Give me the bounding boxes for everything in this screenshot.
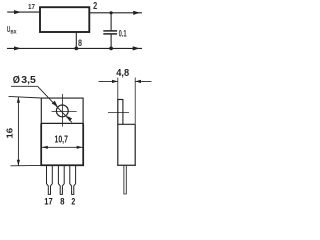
package front view body outline (thicker) xyxy=(41,123,83,165)
pin 3 outline (front view) xyxy=(70,166,76,195)
arrowhead output xyxy=(133,11,140,15)
svg-text:3,5: 3,5 xyxy=(21,75,36,86)
wire output xyxy=(89,12,142,14)
junction node cap/rail xyxy=(109,47,113,51)
svg-text:17: 17 xyxy=(28,2,35,11)
svg-text:2: 2 xyxy=(71,197,75,208)
wire capacitor bottom lead xyxy=(110,34,112,49)
junction node top xyxy=(110,11,113,14)
svg-text:16: 16 xyxy=(5,128,15,139)
capacitor C1 plate top xyxy=(103,30,117,32)
dim 10,7 arrow right xyxy=(77,146,83,149)
leader arrowhead lower-right xyxy=(67,116,72,121)
dim 4,8 left segment xyxy=(99,80,118,82)
leader line to hole xyxy=(38,86,72,122)
wire pin 8 to bottom rail xyxy=(75,32,77,48)
capacitor C1 plate bottom xyxy=(103,33,117,35)
regulator box DA1 xyxy=(40,7,89,32)
dim 16 arrow down xyxy=(17,160,20,166)
package front view tab outline (thinner) xyxy=(41,98,83,123)
dim 10,7 arrow left xyxy=(42,146,48,149)
dim 4,8 right segment xyxy=(135,80,151,82)
side view bottom edge xyxy=(117,164,136,166)
svg-text:4,8: 4,8 xyxy=(116,67,129,79)
svg-text:8: 8 xyxy=(78,38,82,48)
svg-text:вх: вх xyxy=(10,28,17,35)
dim 16 extension top xyxy=(9,96,42,98)
mounting hole xyxy=(56,105,68,117)
junction node pin8/rail xyxy=(74,47,78,51)
side view pin outline xyxy=(124,165,126,194)
pin 2 outline (front view) xyxy=(58,166,64,195)
svg-text:2: 2 xyxy=(93,1,97,12)
side view left edge xyxy=(117,99,119,165)
wire input (top rail into regulator) xyxy=(7,11,40,13)
svg-text:17: 17 xyxy=(44,197,52,208)
side view tab top edge xyxy=(117,99,123,101)
wire capacitor top lead xyxy=(110,13,112,31)
wire bottom rail xyxy=(7,47,142,49)
dim 16 arrow up xyxy=(17,97,20,103)
side view right edge xyxy=(134,124,136,165)
side view hole centerline xyxy=(108,112,129,114)
svg-text:Ø: Ø xyxy=(13,75,20,86)
arrowhead on input wire xyxy=(14,10,21,14)
hole centerline vertical xyxy=(62,94,64,127)
leader underline xyxy=(11,85,38,87)
arrowhead bottom-left xyxy=(14,46,21,50)
dim 10,7 line xyxy=(42,146,83,148)
side view right extension xyxy=(134,78,136,125)
leader arrowhead upper-left xyxy=(52,101,58,107)
hole centerline horizontal xyxy=(52,111,77,113)
dim 4,8 arrow right-pointing xyxy=(112,80,118,83)
side view left extension xyxy=(117,78,119,100)
tab/body separator line xyxy=(41,122,84,124)
dim 4,8 arrow left-pointing xyxy=(135,80,141,83)
pin 1 outline (front view) xyxy=(47,166,53,195)
arrowhead bottom-right xyxy=(133,46,140,50)
svg-text:10,7: 10,7 xyxy=(55,135,69,146)
dim 16 extension bottom xyxy=(11,164,42,166)
svg-text:8: 8 xyxy=(60,197,65,208)
side view body top line xyxy=(118,123,135,125)
side view tab inner line xyxy=(122,100,124,125)
svg-text:0.1: 0.1 xyxy=(119,29,127,39)
dim 16 line xyxy=(17,97,19,166)
